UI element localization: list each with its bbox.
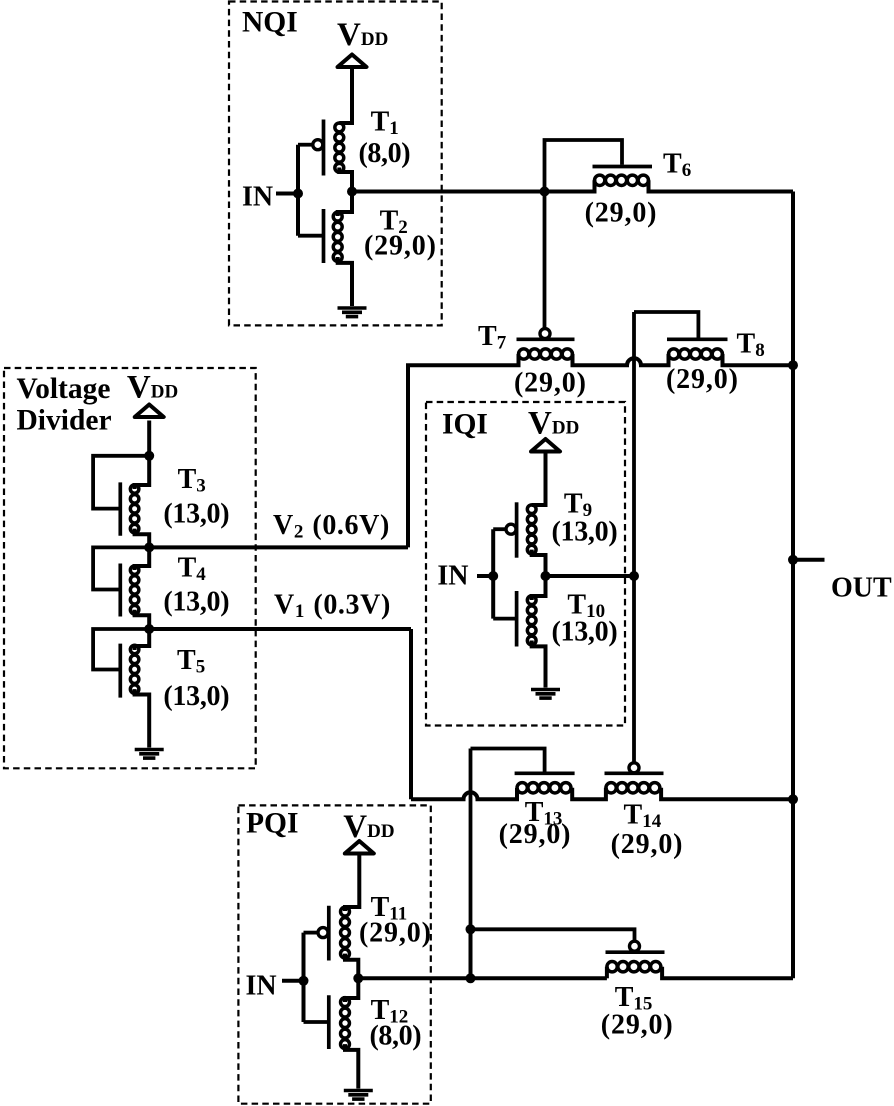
svg-text:(13,0): (13,0)	[163, 681, 229, 712]
transistor T1 coil	[335, 123, 344, 172]
wire right output rail	[791, 192, 795, 979]
svg-text:T1: T1	[371, 107, 399, 140]
node T14 output on right rail	[788, 794, 798, 804]
svg-text:V1 (0.3V): V1 (0.3V)	[274, 590, 391, 623]
wire output node to T10 drain	[532, 576, 546, 600]
transistor T12 gate bar	[327, 995, 331, 1049]
wire T15 gate wire	[471, 929, 635, 941]
svg-text:VDD: VDD	[337, 17, 388, 53]
VDD symbol (IQI)	[531, 439, 560, 452]
svg-text:Voltage: Voltage	[17, 373, 111, 405]
wire V1 to T13 with hop	[411, 788, 517, 799]
svg-text:NQI: NQI	[242, 7, 298, 39]
wire IN stub (IQI)	[477, 574, 493, 578]
transistor T2 gate bar	[322, 209, 326, 263]
node V1 tap	[144, 624, 154, 634]
node T6 gate junction	[540, 187, 550, 197]
transistor T12 coil	[341, 998, 350, 1049]
node T15 gate junction	[466, 924, 476, 934]
wire T7 to T8 with hop	[573, 354, 669, 365]
wire T10 gate to input rail	[493, 617, 515, 621]
wire T11 source to output node	[345, 954, 358, 979]
svg-text:T7: T7	[478, 321, 507, 354]
svg-text:(29,0): (29,0)	[666, 364, 739, 395]
wire T3 gate loop	[93, 456, 149, 509]
transistor T3 coil	[130, 485, 139, 533]
wire V1 riser down	[409, 629, 413, 799]
VDD symbol (NQI)	[338, 55, 367, 68]
wire T5 gate loop	[93, 629, 149, 670]
wire IQI output to rail	[546, 574, 635, 578]
node divider top	[144, 451, 154, 461]
wire T9 source to output node	[532, 550, 546, 576]
wire top node to T3 drain	[135, 456, 150, 489]
svg-text:(13,0): (13,0)	[552, 617, 618, 648]
wire T8 gate loop to IQI rail	[634, 312, 698, 338]
wire T3 source to V2 node	[135, 529, 150, 548]
svg-text:VDD: VDD	[343, 809, 394, 845]
svg-text:(29,0): (29,0)	[364, 230, 437, 261]
Voltage Divider dashed border	[4, 368, 256, 768]
svg-text:VDD: VDD	[528, 406, 579, 442]
transistor T10 gate bar	[515, 591, 519, 647]
transistor T14 gate bubble	[629, 763, 639, 773]
transistor T13 gate bar	[515, 771, 575, 775]
svg-text:T14: T14	[624, 800, 662, 833]
wire T15 left stub	[605, 967, 609, 979]
wire V1 horizontal	[149, 627, 411, 631]
ground (PQI)	[344, 1091, 373, 1100]
transistor T10 coil	[527, 596, 536, 645]
svg-text:T3: T3	[178, 464, 206, 497]
wire PQI input rail	[302, 933, 306, 1022]
NQI block dashed border	[229, 2, 442, 326]
transistor T8 coil	[669, 349, 723, 359]
transistor T5 gate bar	[118, 644, 122, 698]
node PQI output junction	[466, 973, 476, 983]
wire T5 source to ground	[135, 689, 150, 747]
wire T2 source to ground	[338, 257, 352, 306]
wire T13 gate loop	[471, 749, 545, 773]
wire PQI feedback rail	[469, 749, 473, 930]
svg-text:IQI: IQI	[442, 409, 488, 441]
wire T6 gate loop	[545, 140, 623, 192]
transistor T15 coil	[607, 962, 661, 972]
transistor T2 coil	[333, 212, 342, 261]
svg-text:(29,0): (29,0)	[359, 917, 432, 948]
transistor T14 gate bar	[605, 771, 664, 775]
wire T11 gate to input rail	[304, 931, 319, 935]
transistor T14 coil	[606, 783, 660, 793]
svg-text:V2 (0.6V): V2 (0.6V)	[273, 510, 390, 543]
transistor T6 gate bar	[593, 165, 653, 169]
transistor T1 gate bar	[322, 120, 326, 176]
transistor T7 gate bar	[517, 337, 575, 341]
wire T6 channel right stub	[649, 180, 794, 191]
svg-text:(13,0): (13,0)	[163, 499, 229, 530]
transistor T11 gate bar	[327, 906, 331, 961]
svg-text:(29,0): (29,0)	[611, 829, 684, 860]
node OUT	[788, 555, 798, 565]
svg-text:T6: T6	[663, 148, 691, 181]
wire T4 source to V1 node	[135, 610, 150, 629]
wire V2 to T7	[149, 545, 408, 549]
transistor T8 gate bar	[667, 337, 728, 341]
transistor T4 coil	[130, 566, 139, 614]
wire VDD to T11 drain	[345, 855, 359, 912]
wire IN stub (NQI)	[276, 192, 298, 196]
transistor T11 coil	[341, 907, 350, 958]
wire T12 gate to input rail	[304, 1020, 328, 1024]
svg-text:(13,0): (13,0)	[163, 587, 229, 618]
transistor T9 gate bar	[515, 502, 519, 557]
wire T2 gate to input rail	[298, 234, 322, 238]
svg-text:IN: IN	[246, 971, 277, 1002]
wire OUT stub	[793, 558, 825, 562]
wire NQI input rail	[296, 145, 300, 236]
VDD symbol (PQI)	[345, 841, 374, 854]
svg-text:T8: T8	[737, 329, 765, 362]
wire output node to T12 drain	[345, 978, 358, 1002]
wire V2 node to T4 drain	[135, 547, 150, 570]
svg-text:(29,0): (29,0)	[514, 368, 587, 399]
VDD symbol (divider)	[135, 405, 164, 418]
ground (divider)	[135, 750, 164, 759]
transistor T15 gate bubble	[630, 941, 640, 951]
node T8 output on right rail	[788, 360, 798, 370]
transistor T3 gate bar	[118, 482, 122, 535]
transistor T4 gate bar	[118, 564, 122, 617]
wire T13-T14 link	[572, 788, 606, 800]
wire T8 right stub to rail	[723, 354, 794, 365]
svg-text:(13,0): (13,0)	[552, 517, 618, 548]
wire T9 gate to input rail	[493, 527, 506, 531]
wire IQI input rail	[491, 529, 495, 618]
svg-text:(8,0): (8,0)	[359, 138, 411, 169]
wire feedback rail link	[469, 929, 473, 978]
svg-text:(29,0): (29,0)	[585, 198, 658, 229]
wire output node to T2 drain	[338, 192, 352, 217]
wire IQI output rail	[632, 312, 636, 762]
transistor T15 gate bar	[606, 950, 665, 954]
node PQI output	[353, 973, 363, 983]
transistor T9 gate bubble	[506, 524, 516, 534]
ground (NQI)	[338, 308, 367, 317]
transistor T1 gate bubble	[313, 140, 323, 150]
transistor T7 gate bubble	[540, 329, 550, 339]
wire IN stub (PQI)	[282, 979, 304, 983]
node NQI output	[347, 187, 357, 197]
wire V1 node to T5 drain	[135, 629, 150, 650]
node IN (NQI)	[293, 189, 303, 199]
transistor T13 coil	[517, 783, 571, 793]
transistor T9 coil	[527, 505, 536, 554]
transistor T11 gate bubble	[318, 928, 328, 938]
wire V2 riser to T7	[408, 354, 519, 547]
svg-text:T4: T4	[178, 552, 207, 585]
svg-text:(29,0): (29,0)	[499, 819, 572, 850]
wire VDD to T9 drain	[532, 453, 546, 506]
wire T6 channel left stub	[545, 180, 595, 191]
transistor T6 coil	[595, 175, 649, 185]
wire T6 node to T7 gate	[543, 192, 547, 330]
ground (IQI)	[531, 690, 560, 699]
svg-text:IN: IN	[242, 182, 273, 213]
svg-text:VDD: VDD	[127, 370, 178, 406]
transistor T5 coil	[130, 645, 139, 693]
transistor T7 coil	[519, 349, 573, 359]
IQI block dashed border	[426, 402, 625, 726]
svg-text:OUT: OUT	[831, 573, 892, 604]
node V2 tap	[144, 542, 154, 552]
node IN (IQI)	[488, 571, 498, 581]
svg-text:(8,0): (8,0)	[370, 1020, 422, 1051]
wire T14 right stub to rail	[661, 788, 793, 800]
wire T10 source to ground	[532, 641, 546, 688]
svg-text:Divider: Divider	[17, 405, 112, 437]
svg-text:IN: IN	[437, 561, 468, 592]
node IQI output	[541, 571, 551, 581]
wire T1 gate to input rail	[298, 143, 314, 147]
PQI block dashed border	[238, 805, 430, 1103]
node IQI output on rail	[629, 571, 639, 581]
wire PQI output to T15	[358, 976, 607, 980]
wire T4 gate loop	[93, 547, 149, 589]
svg-text:(29,0): (29,0)	[601, 1010, 674, 1041]
node IN (PQI)	[299, 976, 309, 986]
wire T15 right stub to rail	[662, 967, 793, 979]
wire VDD to T1 drain	[339, 68, 352, 123]
wire T12 source to ground	[345, 1044, 358, 1088]
wire T1 source to output node	[339, 168, 352, 192]
svg-text:T5: T5	[177, 645, 205, 678]
svg-text:PQI: PQI	[246, 807, 298, 839]
wire NQI output to T6 node	[352, 190, 545, 194]
wire VDD to divider top node	[147, 421, 151, 456]
